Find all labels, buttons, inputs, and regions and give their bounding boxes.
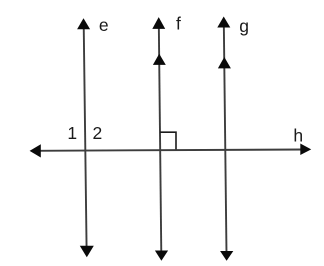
line g parallel-mark arrowhead (218, 57, 231, 68)
svg-text:g: g (239, 16, 249, 36)
line f bottom arrowhead (155, 251, 168, 261)
svg-text:2: 2 (93, 123, 103, 143)
svg-text:f: f (176, 14, 181, 34)
line h left arrowhead (30, 144, 41, 157)
svg-text:e: e (99, 15, 109, 35)
line f (159, 23, 162, 254)
line f parallel-mark arrowhead (153, 54, 166, 65)
line e top arrowhead (77, 18, 90, 29)
svg-text:1: 1 (67, 123, 77, 143)
line g top arrowhead (217, 17, 230, 28)
right-angle marker at f and h (160, 132, 176, 149)
line g (224, 22, 227, 254)
line g bottom arrowhead (220, 251, 233, 261)
line f top arrowhead (152, 17, 165, 29)
line e bottom arrowhead (80, 246, 94, 257)
line h right arrowhead (300, 144, 311, 156)
line e (84, 24, 87, 250)
line h (36, 150, 304, 151)
svg-text:h: h (293, 125, 303, 145)
